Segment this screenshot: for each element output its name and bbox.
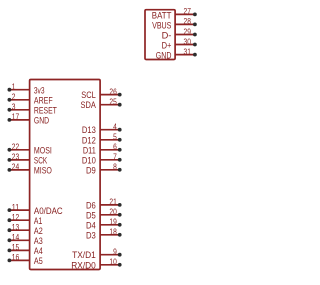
svg-text:31: 31 xyxy=(184,47,191,56)
svg-text:24: 24 xyxy=(12,163,20,172)
pin 16 (A5) xyxy=(7,253,42,266)
svg-text:12: 12 xyxy=(12,213,19,222)
svg-text:28: 28 xyxy=(184,17,192,26)
pin 12 (A1) xyxy=(7,213,42,226)
svg-text:15: 15 xyxy=(12,243,20,252)
svg-text:RX/D0: RX/D0 xyxy=(71,259,96,270)
svg-text:21: 21 xyxy=(109,198,116,207)
pin 19 (D4) xyxy=(86,218,122,231)
pin 31 (GND) xyxy=(156,47,197,60)
svg-text:D3: D3 xyxy=(86,229,96,240)
pin 2 (AREF) xyxy=(7,93,52,106)
svg-text:D9: D9 xyxy=(86,164,96,175)
svg-text:SDA: SDA xyxy=(81,99,97,110)
svg-text:11: 11 xyxy=(12,203,19,212)
svg-text:2: 2 xyxy=(12,93,16,102)
svg-text:8: 8 xyxy=(113,163,117,172)
svg-text:1: 1 xyxy=(12,83,16,92)
svg-text:3: 3 xyxy=(12,103,16,112)
svg-text:26: 26 xyxy=(109,87,117,96)
pin 5 (D12) xyxy=(82,133,122,146)
svg-text:23: 23 xyxy=(12,153,20,162)
pin 18 (D3) xyxy=(86,228,122,241)
pin 26 (SCL) xyxy=(81,87,121,100)
pin 17 (GND) xyxy=(7,113,49,126)
pin 7 (D10) xyxy=(82,153,122,166)
connector J1 body (BATT/USB header) xyxy=(145,10,175,60)
svg-text:30: 30 xyxy=(184,37,192,46)
svg-text:18: 18 xyxy=(109,228,117,237)
svg-text:9: 9 xyxy=(113,248,117,257)
svg-text:16: 16 xyxy=(12,253,20,262)
pin 3 (RESET) xyxy=(7,103,57,116)
pin 8 (D9) xyxy=(86,163,122,176)
pin 22 (MOSI) xyxy=(7,143,51,156)
svg-text:GND: GND xyxy=(34,115,49,126)
pin 29 (D-) xyxy=(162,27,197,40)
svg-text:A5: A5 xyxy=(34,255,43,266)
pin 15 (A4) xyxy=(7,243,42,256)
pin 1 (3v3) xyxy=(7,83,44,96)
svg-text:14: 14 xyxy=(12,233,20,242)
svg-text:MISO: MISO xyxy=(34,165,52,176)
pin 14 (A3) xyxy=(7,233,42,246)
pin 20 (D5) xyxy=(86,208,122,221)
svg-text:17: 17 xyxy=(12,113,19,122)
svg-text:7: 7 xyxy=(113,153,117,162)
pin 25 (SDA) xyxy=(81,98,122,111)
svg-text:13: 13 xyxy=(12,223,20,232)
pin 28 (VBUS) xyxy=(152,17,197,30)
svg-text:29: 29 xyxy=(184,27,192,36)
svg-text:25: 25 xyxy=(109,98,117,107)
svg-text:10: 10 xyxy=(109,258,117,267)
pin 10 (RX/D0) xyxy=(71,258,121,271)
pin 13 (A2) xyxy=(7,223,42,236)
pin 4 (D13) xyxy=(82,123,122,136)
pin 24 (MISO) xyxy=(7,163,51,176)
svg-text:22: 22 xyxy=(12,143,19,152)
pin 9 (TX/D1) xyxy=(72,248,122,261)
pin 23 (SCK) xyxy=(7,153,47,166)
svg-text:27: 27 xyxy=(184,7,191,16)
pin 30 (D+) xyxy=(162,37,197,50)
pin 27 (BATT) xyxy=(152,7,197,20)
svg-text:20: 20 xyxy=(109,208,117,217)
svg-text:4: 4 xyxy=(113,123,117,132)
svg-text:GND: GND xyxy=(156,50,172,61)
pin 11 (A0/DAC) xyxy=(7,203,62,216)
pin 21 (D6) xyxy=(86,198,122,211)
pin 6 (D11) xyxy=(83,143,122,156)
IC U1 body (MCU module) xyxy=(30,80,101,270)
svg-text:5: 5 xyxy=(113,133,117,142)
svg-text:19: 19 xyxy=(109,218,117,227)
svg-text:6: 6 xyxy=(113,143,117,152)
